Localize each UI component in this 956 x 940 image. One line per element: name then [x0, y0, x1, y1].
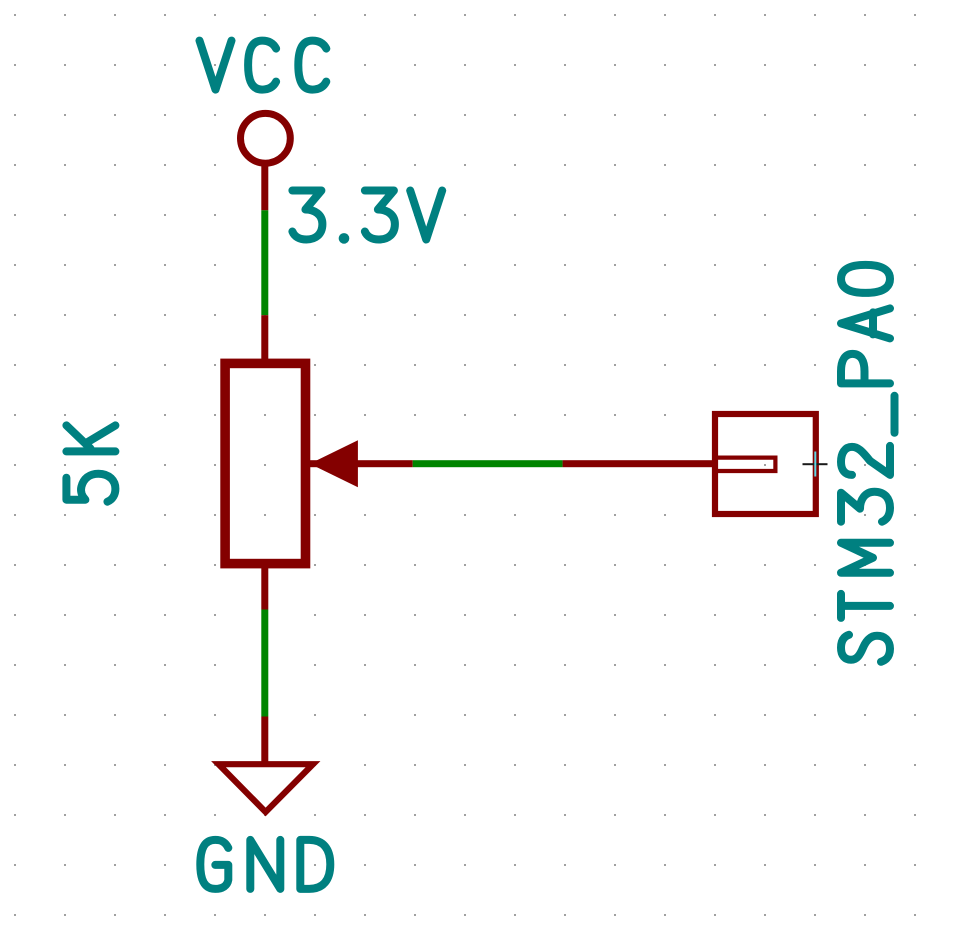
R1 pin 3 [261, 566, 268, 610]
wire VCC to R1 pin1 [261, 210, 268, 315]
connector J1 body [715, 414, 816, 514]
wire wiper to J1 [413, 460, 563, 467]
wire R1 pin3 to GND [261, 610, 268, 717]
power label VCC [200, 41, 327, 90]
cursor crosshair horizontal [803, 463, 828, 465]
power symbol VCC pin [261, 163, 268, 210]
J1 pin 1 [563, 460, 714, 467]
GND power pin [261, 717, 268, 763]
R1 wiper pin 2 [310, 460, 413, 467]
R1 pin 1 [261, 315, 268, 360]
cursor crosshair vertical [814, 452, 816, 477]
GND symbol triangle [219, 764, 314, 812]
R1 value 5K [66, 425, 115, 501]
potentiometer R1 body [225, 363, 305, 563]
J1 pin slot [718, 458, 775, 471]
R1 wiper arrow [310, 440, 358, 487]
VCC power symbol circle [241, 113, 291, 163]
power label GND [200, 840, 330, 889]
net label 3.3V [292, 191, 442, 244]
label STM32_PA0 [841, 265, 895, 662]
